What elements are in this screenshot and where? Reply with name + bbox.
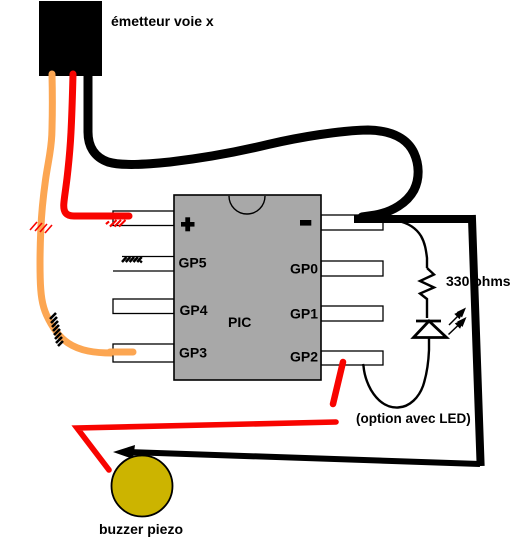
red wire tip over + pin <box>112 213 129 220</box>
PIC chip body <box>174 195 321 380</box>
bus bar black bottom (to buzzer, with arrowhead) <box>128 452 480 464</box>
svg-text:(option avec LED): (option avec LED) <box>356 411 471 426</box>
bus bar black top (to right edge) <box>358 215 471 223</box>
svg-text:GP3: GP3 <box>179 345 207 361</box>
svg-text:émetteur voie x: émetteur voie x <box>111 13 214 29</box>
connector émetteur voie x (black box) <box>39 1 102 76</box>
chip notch <box>229 196 265 214</box>
pin - (right) <box>321 215 383 230</box>
pin GP4 (left) <box>113 299 174 314</box>
wire LED return to GP2 (U loop) <box>363 338 429 408</box>
LED light arrow upper <box>449 308 466 326</box>
svg-text:GP1: GP1 <box>290 306 318 322</box>
red hatch marks (left, on orange wire area) <box>30 222 52 233</box>
hatch scribble on orange wire <box>50 313 63 346</box>
wire from - bus to resistor <box>398 221 427 268</box>
resistor R1 zigzag <box>420 268 434 318</box>
LED D1 cathode bar <box>416 320 441 323</box>
wire red (emitter + to PIC + pin) <box>64 74 129 216</box>
wire red GP2 stub (diagonal) <box>333 362 343 404</box>
pin GP0 (right) <box>321 261 383 276</box>
pin + (left) <box>113 211 174 226</box>
label - <box>300 220 311 226</box>
svg-text:GP0: GP0 <box>290 261 318 277</box>
LED D1 triangle <box>414 321 447 338</box>
svg-text:GP2: GP2 <box>290 349 318 365</box>
svg-text:GP4: GP4 <box>180 302 208 318</box>
wire black (emitter to - pin, big loop) <box>88 74 418 217</box>
pin GP2 (right) <box>321 351 383 365</box>
red hatch marks over + pin <box>106 220 126 227</box>
bus bar overlaps - pin <box>358 215 471 223</box>
hatch scribble on GP5 pin <box>122 257 142 263</box>
LED light arrow lower <box>449 317 467 335</box>
pin GP1 (right) <box>321 306 383 321</box>
wire red horizontal to left and down to buzzer <box>77 422 336 470</box>
label + <box>181 217 195 231</box>
svg-text:buzzer piezo: buzzer piezo <box>99 521 183 537</box>
svg-text:GP5: GP5 <box>179 255 207 271</box>
pin GP5 (left, cut) <box>113 257 174 272</box>
orange wire tip over GP3 pin <box>110 349 133 356</box>
svg-text:330 ohms: 330 ohms <box>446 273 510 289</box>
arrowhead at buzzer <box>113 445 135 459</box>
bus bar black right vertical <box>472 219 481 462</box>
svg-text:PIC: PIC <box>228 314 251 330</box>
wire orange (emitter to GP3) <box>40 74 133 353</box>
buzzer piezo body <box>112 456 173 517</box>
pin GP3 (left) <box>113 344 174 362</box>
red hatch marks near + pin <box>106 220 126 227</box>
